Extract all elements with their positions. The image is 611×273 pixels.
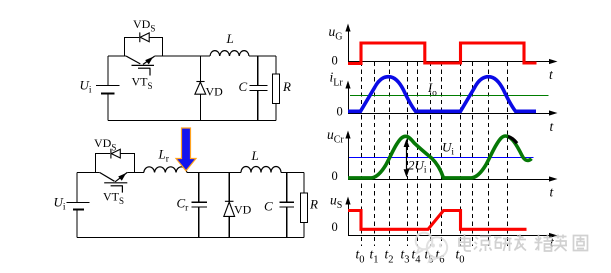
svg-text:VTS: VTS: [103, 190, 124, 207]
capacitor C (top circuit): [250, 56, 268, 121]
watermark logo: chat bubbles: [416, 233, 447, 262]
svg-text:uS: uS: [330, 193, 342, 212]
svg-text:R: R: [309, 197, 318, 212]
svg-text:C: C: [239, 79, 248, 94]
发: [515, 235, 527, 251]
filter capacitor C (bottom circuit): [279, 173, 294, 238]
wire: Cr bottom lead: [198, 207, 200, 237]
svg-text:uG: uG: [329, 24, 343, 43]
svg-text:t0: t0: [356, 247, 365, 266]
resonant inductor L_r (bottom circuit): [144, 167, 187, 173]
anti-parallel diode VD_S loop (top circuit): [124, 37, 162, 56]
watermark text 电源研发精英圈 (vector strokes): [459, 234, 588, 252]
wire: VD_S right riser: [149, 37, 162, 56]
axis of u_S plot: [349, 200, 553, 236]
dashed time gridlines t0..t6, t0'..t3': [362, 62, 508, 246]
wire: right rail above R: [275, 56, 277, 74]
wire: top rail from L coil to right corner: [281, 172, 304, 174]
axis of i_Lr plot: [349, 84, 553, 114]
waveform i_Lr resonant inductor current (blue): [348, 77, 536, 112]
svg-text:t1: t1: [370, 247, 379, 266]
svg-text:L: L: [251, 148, 259, 163]
svg-text:uCr: uCr: [327, 127, 344, 146]
svg-text:VD: VD: [234, 203, 252, 217]
svg-text:t4: t4: [412, 247, 422, 266]
diode VD_S symbol (top circuit): [140, 32, 149, 42]
black segment on second u_Cr peak: [508, 136, 517, 143]
waveform u_G gate drive (red square wave): [348, 43, 537, 64]
svg-text:2Ui: 2Ui: [408, 158, 427, 176]
svg-text:L: L: [226, 31, 234, 46]
源: [474, 237, 492, 252]
英: [554, 235, 568, 252]
wire: left rail upper (Ui top): [107, 56, 109, 85]
电: [459, 234, 471, 251]
wire: left rail lower (Ui bottom): [107, 94, 109, 121]
wire: C bottom lead: [286, 207, 288, 237]
wire: VD anode drop from top rail: [199, 56, 201, 82]
wire: VD anode drop from top rail: [228, 173, 230, 203]
wire: C top lead: [286, 173, 288, 203]
diode VD_S symbol (bottom circuit): [111, 149, 120, 159]
freewheeling diode VD (top circuit): [195, 56, 206, 121]
wire: right rail below R: [275, 103, 277, 120]
svg-text:R: R: [282, 79, 291, 94]
svg-text:0: 0: [337, 105, 343, 119]
transistor VT_S emitter arrowhead: [145, 57, 153, 65]
svg-text:Ui: Ui: [54, 195, 66, 213]
wire: right rail below R: [303, 222, 305, 237]
svg-text:t: t: [550, 185, 555, 200]
精: [535, 235, 553, 252]
svg-text:Lr: Lr: [158, 147, 170, 165]
svg-text:Ui: Ui: [80, 78, 92, 96]
freewheeling diode VD (bottom circuit): [224, 173, 235, 238]
axis of u_Cr plot: [349, 134, 553, 180]
wire: VD cathode to bottom rail: [228, 216, 230, 237]
wire: top rail left segment (Ui+ to VT collector): [108, 55, 126, 57]
svg-text:iLr: iLr: [330, 70, 344, 89]
filter inductor L (bottom circuit): [241, 167, 281, 173]
transistor VT_S (top circuit, GTR symbol): [126, 56, 155, 76]
svg-text:t3: t3: [401, 247, 410, 266]
svg-text:t0: t0: [456, 247, 465, 266]
waveform u_Cr resonant capacitor voltage (dark green): [348, 136, 532, 178]
wire: VD_S right riser: [120, 154, 134, 173]
wire: C top lead: [257, 56, 259, 85]
圈: [574, 236, 588, 251]
dimension arrow 2U_i (double-headed vertical): [404, 139, 410, 178]
svg-text:VD: VD: [206, 85, 224, 99]
resistor R (top circuit): [273, 74, 280, 103]
wire: top rail from L coil to right corner: [249, 55, 276, 57]
transistor VT_S emitter arrowhead (bottom): [118, 173, 126, 181]
svg-text:0: 0: [332, 220, 338, 234]
transistor VT_S (bottom circuit, GTR symbol): [100, 172, 128, 192]
svg-text:0: 0: [332, 54, 338, 68]
waveform u_S switch voltage (red): [348, 211, 527, 230]
wire: bottom return rail: [77, 237, 304, 239]
wire: VD_S left riser: [124, 37, 139, 56]
svg-text:VTS: VTS: [132, 75, 153, 92]
svg-text:t: t: [550, 119, 555, 134]
wire: top rail from VT emitter to Lr coil: [127, 172, 144, 174]
wire: VD_S left riser: [96, 154, 111, 173]
inductor L (top circuit): [210, 51, 249, 56]
wire: right rail above R: [303, 173, 305, 194]
resonant capacitor C_r (bottom circuit): [192, 173, 208, 238]
wire: C bottom lead: [257, 91, 259, 121]
wire: VD cathode to bottom rail: [199, 94, 201, 120]
wire: top rail left segment (Ui+ to VT collector): [77, 172, 100, 174]
wire: bottom return rail: [108, 120, 276, 122]
wire: top rail from VT emitter to L coil: [155, 55, 211, 57]
time labels t0..t6 and t0: [356, 247, 465, 266]
svg-text:C: C: [264, 199, 273, 214]
battery U_i (top circuit): [96, 86, 119, 94]
wire: Cr top lead: [198, 173, 200, 203]
研: [494, 238, 512, 252]
svg-text:0: 0: [332, 169, 338, 183]
svg-text:Cr: Cr: [177, 196, 190, 214]
load resistor R (bottom circuit): [300, 193, 307, 222]
big blue transform arrow between circuits: [176, 128, 196, 171]
output current level line I_o (thin green): [350, 95, 549, 97]
wire: top rail from Lr coil to L coil: [187, 172, 241, 174]
svg-text:t: t: [549, 67, 554, 82]
svg-text:Ui: Ui: [442, 140, 454, 158]
wire: left rail upper (Ui top): [76, 173, 78, 203]
svg-text:VDS: VDS: [133, 17, 155, 34]
input voltage level line U_i (thin blue): [349, 157, 534, 159]
wire: left rail lower (Ui bottom): [76, 210, 78, 238]
anti-parallel diode VD_S loop (bottom circuit): [96, 154, 135, 173]
svg-text:VDS: VDS: [94, 136, 116, 153]
svg-text:t2: t2: [385, 247, 394, 266]
battery U_i (bottom circuit): [66, 203, 89, 210]
axis of u_G plot: [349, 27, 553, 62]
